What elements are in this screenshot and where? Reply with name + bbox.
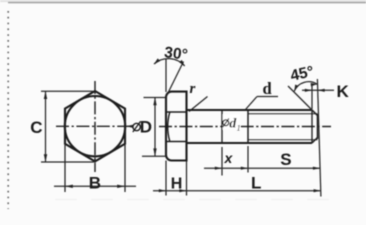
svg-text:x: x [224,150,234,166]
shank outline top [187,109,313,111]
30 deg chamfer construction vertical line [165,59,167,92]
svg-text:H: H [171,175,183,192]
hexagon outline [65,91,125,161]
left perforation dotted line [7,11,9,209]
label phi d1 on centerline [223,115,241,130]
svg-text:S: S [280,150,291,169]
svg-text:30°: 30° [163,44,188,64]
dimension C line with arrows [45,91,47,162]
svg-text:r: r [190,81,196,97]
d leader slant [246,97,258,110]
dimension B extension lines [64,144,66,192]
head facet line upper [167,111,187,113]
x dimension extension line [221,147,223,176]
chamfer start line at tip [311,110,313,143]
vertical centerline of hexagon [94,81,96,172]
thread start line [247,110,249,143]
K extension line right (also end-face extension, slightly skewed like scan) [317,79,321,197]
H extension line left [165,161,167,196]
shank outline bottom [187,142,313,144]
page top border [0,0,366,2]
tip chamfer bottom slant [312,138,318,144]
svg-text:K: K [337,82,350,101]
dimension C extension lines [41,90,93,92]
head outline [166,92,187,161]
middle facet chamfer arc [168,112,170,142]
leader arrow on centerline for phi-D [126,125,134,128]
thread runout line [221,110,223,143]
phi D dimension extension lines [144,97,166,99]
tip chamfer top slant [312,110,318,116]
x / S shared dimension line [204,167,320,169]
svg-text:B: B [89,173,101,192]
45 deg chamfer construction slant [288,86,318,116]
H / L dimension line [153,190,321,192]
thread crest line bottom [248,139,318,141]
label phi D [133,123,140,130]
30 deg chamfer slant line [166,62,184,98]
45 deg angle arc [294,82,317,91]
main centerline of bolt [159,126,331,128]
dimension B line with arrows [54,185,136,187]
svg-text:d: d [263,79,272,98]
d leader underline [257,96,278,98]
svg-text:C: C [30,118,42,137]
S extension line [247,146,249,173]
thread crest line top [248,113,318,115]
H extension line right [186,161,188,196]
svg-text:D: D [140,118,152,137]
phi D dimension line [154,98,156,157]
K extension line left [311,84,313,109]
fillet r leader [189,97,208,112]
svg-text:1: 1 [237,123,241,133]
head facet line lower [167,141,187,143]
K dimension line with outside arrows [302,89,334,91]
chamfer circle [65,96,125,156]
faint scan line [55,199,330,201]
30 deg angle arc [154,59,185,66]
svg-text:L: L [251,173,261,192]
end face [317,114,319,139]
horizontal centerline of hexagon [56,125,133,127]
